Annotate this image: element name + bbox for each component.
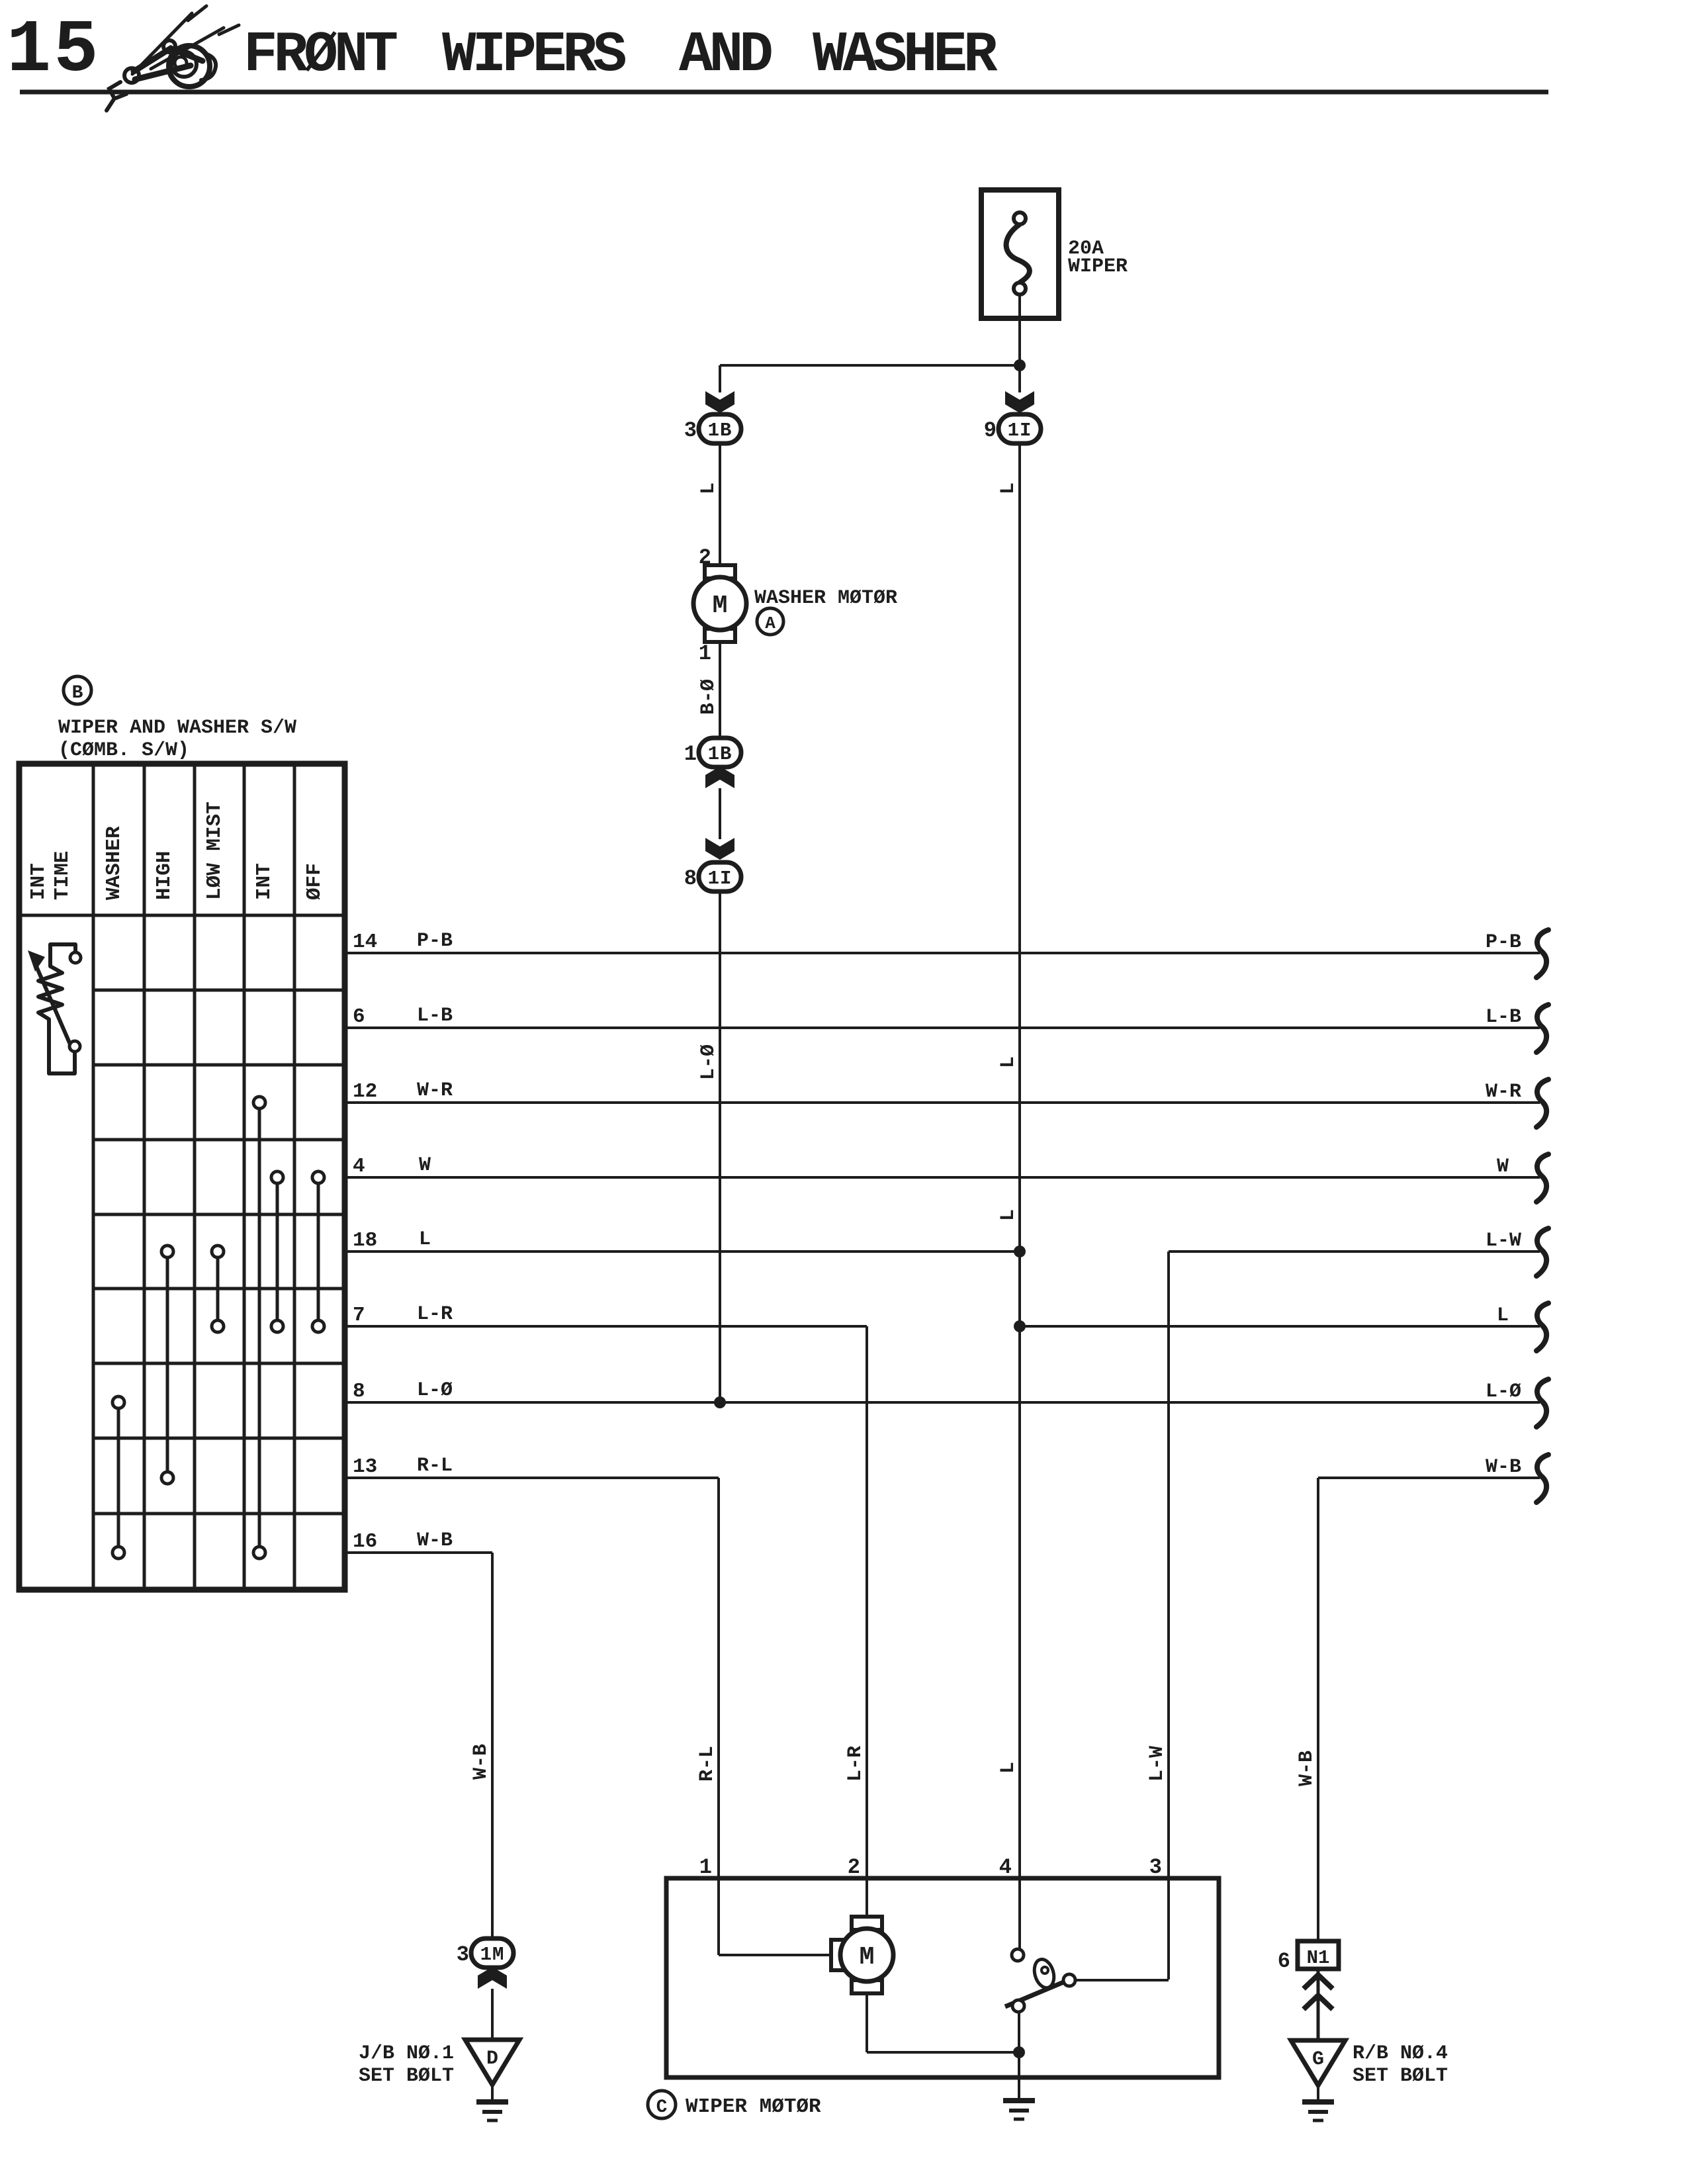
wiper motor M xyxy=(831,1940,846,1970)
svg-text:SET BØLT: SET BØLT xyxy=(359,2065,454,2087)
wire motor to common xyxy=(866,1993,868,2052)
connector arrow into 1B xyxy=(705,391,734,413)
continuation squiggle W-B xyxy=(1536,1455,1548,1502)
wire L from fuse bottom xyxy=(1018,295,1021,365)
svg-text:W-B: W-B xyxy=(1486,1456,1521,1479)
svg-text:R/B NØ.4: R/B NØ.4 xyxy=(1353,2042,1448,2065)
park switch pivot xyxy=(1012,2000,1024,2012)
svg-text:ØFF: ØFF xyxy=(303,863,326,900)
contact bar LOW MIST column xyxy=(212,1246,224,1257)
wire L fuse branch long xyxy=(1018,443,1021,1251)
continuation squiggle W-R xyxy=(1536,1079,1548,1127)
svg-text:HIGH: HIGH xyxy=(153,851,176,900)
connector 1 1B xyxy=(684,738,741,767)
contact bar HIGH column xyxy=(161,1246,173,1257)
svg-text:G: G xyxy=(1312,2048,1324,2071)
svg-text:1B: 1B xyxy=(708,420,733,441)
wire B-O washer motor to connector xyxy=(719,642,721,739)
ground wiper motor xyxy=(1003,2098,1035,2103)
connector 6 N1 xyxy=(1298,1941,1339,1969)
svg-text:WASHER: WASHER xyxy=(813,23,998,87)
wire W-B right segment xyxy=(1318,1477,1540,1479)
svg-text:1: 1 xyxy=(699,1855,712,1880)
svg-text:L: L xyxy=(997,1209,1020,1221)
continuation squiggle P-B xyxy=(1536,930,1548,978)
wire G to ground xyxy=(1317,2085,1319,2102)
svg-text:L-R: L-R xyxy=(417,1303,453,1326)
svg-text:L-W: L-W xyxy=(1146,1746,1169,1782)
svg-text:8: 8 xyxy=(353,1380,365,1403)
svg-text:L-B: L-B xyxy=(1486,1006,1521,1028)
svg-text:3: 3 xyxy=(457,1942,469,1967)
continuation squiggle L-W xyxy=(1536,1228,1548,1276)
svg-text:WIPER: WIPER xyxy=(1068,255,1128,278)
continuation squiggle L-B xyxy=(1536,1005,1548,1052)
svg-text:L-R: L-R xyxy=(844,1746,867,1782)
svg-text:1I: 1I xyxy=(1008,420,1032,441)
wire L pin 18 to fuse branch xyxy=(345,1250,1020,1253)
svg-text:B-Ø: B-Ø xyxy=(697,679,720,715)
wire L washer branch upper xyxy=(719,365,721,392)
wire W-B pin 16 xyxy=(345,1551,492,1554)
svg-text:W-B: W-B xyxy=(470,1744,492,1780)
wire contact to pin 3 xyxy=(1075,1979,1169,1981)
wire W-B vertical to 1M xyxy=(491,1553,494,1939)
component circle A xyxy=(757,608,783,635)
svg-text:6: 6 xyxy=(1278,1949,1290,1974)
svg-text:W-B: W-B xyxy=(417,1529,453,1552)
wire pin1 to motor xyxy=(719,1954,832,1956)
svg-text:13: 13 xyxy=(353,1455,377,1479)
component circle B xyxy=(64,676,91,704)
svg-text:W: W xyxy=(419,1154,431,1177)
svg-text:D: D xyxy=(486,2048,498,2070)
ground triangle D xyxy=(465,2040,519,2085)
switch table grid xyxy=(19,764,345,1590)
wire L-O between connectors xyxy=(719,788,721,839)
svg-text:WASHER MØTØR: WASHER MØTØR xyxy=(754,587,897,610)
junction L-O xyxy=(714,1396,726,1408)
svg-text:8: 8 xyxy=(684,866,697,891)
svg-text:WIPER MØTØR: WIPER MØTØR xyxy=(686,2095,821,2118)
junction L with right L wire xyxy=(1014,1320,1026,1332)
wire W-B vertical to N1 xyxy=(1317,1478,1319,1941)
junction fuse feed xyxy=(1014,359,1026,371)
svg-text:R-L: R-L xyxy=(696,1746,719,1782)
wiper motor C box xyxy=(666,1878,1219,2077)
svg-text:3: 3 xyxy=(684,418,697,443)
svg-text:M: M xyxy=(860,1943,875,1972)
wire D to ground xyxy=(491,2085,494,2102)
park switch contact xyxy=(1063,1974,1075,1986)
svg-text:INT: INT xyxy=(27,863,50,900)
svg-text:9: 9 xyxy=(984,418,997,443)
contact bar INT column short xyxy=(271,1171,283,1183)
switch contact pin 4 xyxy=(1012,1949,1024,1961)
contact bar WASHER column xyxy=(112,1396,124,1408)
svg-text:L: L xyxy=(1497,1304,1509,1327)
contact bar INT column long xyxy=(253,1097,265,1109)
svg-text:TIME: TIME xyxy=(51,851,74,900)
connector arrow out of 1M xyxy=(478,1967,507,1989)
svg-text:L-Ø: L-Ø xyxy=(417,1379,453,1402)
ground triangle G xyxy=(1291,2040,1345,2085)
svg-text:FRØNT: FRØNT xyxy=(244,23,397,87)
ground R/B NO.4 xyxy=(1302,2099,1334,2105)
wire L fuse branch upper xyxy=(1018,365,1021,392)
svg-text:C: C xyxy=(656,2097,668,2118)
svg-text:P-B: P-B xyxy=(1486,931,1521,954)
svg-text:18: 18 xyxy=(353,1229,377,1252)
wire L-B pin 6 xyxy=(345,1026,1540,1029)
svg-text:L-W: L-W xyxy=(1486,1230,1521,1252)
connector 8 1I xyxy=(684,862,741,891)
wire R-L pin 13 xyxy=(345,1477,719,1479)
ground J/B NO.1 xyxy=(476,2099,508,2105)
continuation squiggle W xyxy=(1536,1154,1548,1202)
svg-text:12: 12 xyxy=(353,1080,377,1103)
wire W pin 4 xyxy=(345,1176,1540,1179)
wire L-O pin 8 xyxy=(345,1401,1540,1404)
svg-text:7: 7 xyxy=(353,1304,365,1327)
svg-text:4: 4 xyxy=(353,1155,365,1178)
svg-text:L: L xyxy=(997,482,1020,494)
connector 9 1I xyxy=(984,414,1041,443)
svg-text:L: L xyxy=(997,1056,1020,1068)
wire L right segment xyxy=(1020,1325,1540,1328)
svg-text:WASHER: WASHER xyxy=(103,826,126,900)
svg-text:WIPER AND WASHER S/W: WIPER AND WASHER S/W xyxy=(58,717,296,739)
svg-text:M: M xyxy=(713,592,728,620)
svg-text:WIPERS: WIPERS xyxy=(442,23,625,87)
svg-text:(CØMB. S/W): (CØMB. S/W) xyxy=(58,739,189,762)
svg-text:1I: 1I xyxy=(708,868,733,889)
svg-text:W-R: W-R xyxy=(1486,1081,1521,1103)
wire 1M to ground D xyxy=(491,1989,494,2040)
svg-text:1B: 1B xyxy=(708,743,733,765)
svg-text:N1: N1 xyxy=(1307,1947,1330,1969)
svg-text:3: 3 xyxy=(1149,1855,1162,1880)
svg-text:14: 14 xyxy=(353,931,377,954)
wire L-R vertical to wiper pin 2 xyxy=(866,1326,868,1918)
connector arrow into 1I xyxy=(1005,391,1034,413)
svg-text:W-B: W-B xyxy=(1296,1751,1318,1786)
fuse 20A WIPER xyxy=(981,190,1059,318)
park switch blade xyxy=(1005,1981,1067,2007)
junction L with wire 18 xyxy=(1014,1246,1026,1257)
svg-text:L-Ø: L-Ø xyxy=(1486,1381,1521,1403)
title rule xyxy=(20,90,1548,95)
continuation squiggle L xyxy=(1536,1303,1548,1351)
svg-text:A: A xyxy=(765,614,776,633)
washer motor A xyxy=(705,565,735,578)
wire L-O to junction at row 8 xyxy=(719,891,721,1402)
connector arrow out of 1B xyxy=(705,766,734,788)
svg-text:16: 16 xyxy=(353,1530,377,1553)
wire L-R pin 7 xyxy=(345,1325,867,1328)
svg-text:W-R: W-R xyxy=(417,1079,453,1102)
svg-text:INT: INT xyxy=(253,863,276,900)
park switch cam xyxy=(1031,1957,1057,1990)
svg-text:W: W xyxy=(1497,1156,1509,1178)
connector arrow into 1I xyxy=(705,838,734,860)
wiper linkage icon xyxy=(107,6,239,111)
connector 3 1B xyxy=(684,414,741,443)
wire L-W vertical to wiper pin 3 xyxy=(1167,1251,1170,1979)
svg-text:1: 1 xyxy=(684,742,697,766)
svg-text:L: L xyxy=(997,1762,1020,1774)
svg-text:1: 1 xyxy=(699,641,711,666)
wire P-B pin 14 xyxy=(345,952,1540,954)
connector arrows to R/B xyxy=(1317,1969,1320,2040)
svg-text:L: L xyxy=(419,1228,431,1251)
contact bar OFF column xyxy=(312,1171,324,1183)
wire W-R pin 12 xyxy=(345,1101,1540,1104)
svg-text:B: B xyxy=(72,683,83,704)
svg-text:P-B: P-B xyxy=(417,930,453,952)
svg-text:L: L xyxy=(697,482,720,494)
svg-text:4: 4 xyxy=(999,1855,1012,1880)
component circle C xyxy=(648,2091,676,2118)
svg-text:AND: AND xyxy=(679,23,772,87)
svg-text:1M: 1M xyxy=(480,1944,505,1966)
svg-text:L-Ø: L-Ø xyxy=(697,1044,720,1080)
svg-text:6: 6 xyxy=(353,1005,365,1028)
svg-text:2: 2 xyxy=(848,1855,860,1880)
wire L-W right segment xyxy=(1169,1250,1540,1253)
wire L washer branch to motor xyxy=(719,443,721,567)
junction common xyxy=(1013,2046,1025,2058)
svg-text:L-B: L-B xyxy=(417,1005,453,1027)
wire R-L vertical to wiper pin 1 xyxy=(717,1478,720,1955)
continuation squiggle L-O xyxy=(1536,1379,1548,1427)
wire L horizontal feed to washer branch xyxy=(720,364,1020,367)
svg-text:LØW MIST: LØW MIST xyxy=(203,801,226,900)
svg-text:R-L: R-L xyxy=(417,1455,453,1477)
wire L fuse branch to wiper pin 4 xyxy=(1018,1326,1021,1950)
variable resistor INT TIME xyxy=(70,952,81,963)
connector 3 1M xyxy=(457,1938,513,1968)
wire L fuse branch to junction 2 xyxy=(1018,1251,1021,1326)
svg-text:J/B NØ.1: J/B NØ.1 xyxy=(359,2042,454,2065)
svg-text:SET BØLT: SET BØLT xyxy=(1353,2065,1448,2087)
svg-text:15: 15 xyxy=(7,9,101,93)
wire common to ground xyxy=(1018,2011,1020,2101)
